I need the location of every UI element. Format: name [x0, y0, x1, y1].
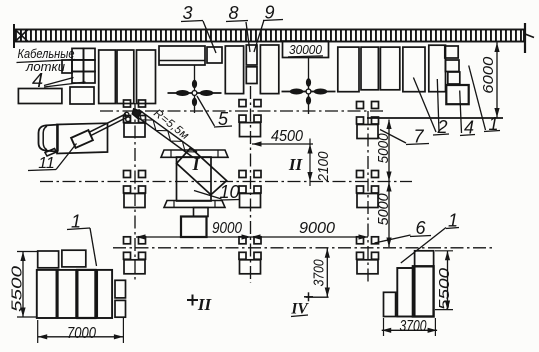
svg-text:9000: 9000 — [299, 220, 335, 237]
svg-text:5000: 5000 — [376, 193, 392, 225]
svg-text:4: 4 — [32, 70, 43, 92]
svg-text:9000: 9000 — [212, 220, 242, 237]
svg-text:4500: 4500 — [271, 128, 303, 145]
svg-text:7000: 7000 — [67, 325, 96, 342]
svg-text:5500: 5500 — [10, 266, 26, 312]
svg-text:II: II — [288, 155, 304, 174]
svg-text:3700: 3700 — [400, 318, 427, 335]
svg-text:II: II — [197, 295, 213, 314]
svg-text:5000: 5000 — [376, 133, 392, 163]
svg-text:6: 6 — [415, 218, 426, 238]
svg-text:6000: 6000 — [481, 57, 497, 94]
svg-text:30000: 30000 — [289, 42, 323, 57]
svg-text:8: 8 — [228, 3, 238, 23]
svg-text:5500: 5500 — [437, 268, 453, 310]
svg-text:3: 3 — [182, 3, 192, 23]
svg-text:2100: 2100 — [316, 152, 332, 183]
svg-text:I: I — [191, 154, 200, 174]
svg-text:3700: 3700 — [312, 259, 328, 286]
